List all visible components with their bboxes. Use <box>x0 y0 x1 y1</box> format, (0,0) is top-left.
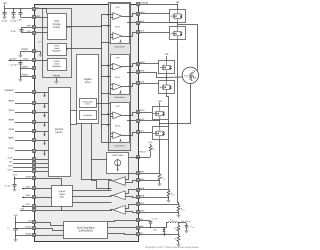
wire amp 2 minus input <box>126 197 137 198</box>
wire SHC <box>140 120 160 122</box>
wire SNC <box>139 212 179 214</box>
pin INHC <box>33 139 36 142</box>
wire GHC driver output <box>122 113 137 116</box>
svg-text:VDRAIN: VDRAIN <box>140 2 149 5</box>
svg-text:Copyright © 2017, Texas Instru: Copyright © 2017, Texas Instruments Inco… <box>145 246 199 249</box>
resistor RSENSE A <box>158 174 161 180</box>
pulldown on INLC <box>43 151 45 156</box>
svg-text:SDO: SDO <box>8 164 13 167</box>
pin SNC <box>137 211 140 214</box>
svg-text:AGND: AGND <box>21 65 28 68</box>
wire phase A source to sense <box>178 41 179 205</box>
wire SHB <box>140 73 167 78</box>
svg-text:VGLS: VGLS <box>115 25 121 28</box>
pin SOB <box>33 196 36 199</box>
wire SHA return into driver <box>127 22 136 24</box>
wire GLA <box>139 32 169 34</box>
wire INHC internal <box>36 140 49 142</box>
wire amp 1 minus input <box>126 181 137 183</box>
svg-text:INHB: INHB <box>8 118 14 121</box>
svg-text:Gate Driver: Gate Driver <box>115 145 126 148</box>
svg-text:VIN: VIN <box>28 220 32 223</box>
pin INLB <box>33 130 36 133</box>
IC body DRV8353R <box>35 5 139 242</box>
wire VM into power box <box>36 9 47 14</box>
wire BGND <box>16 235 33 237</box>
wire SNB <box>139 197 169 199</box>
block Buck Regulator LMR33630 <box>64 222 108 239</box>
svg-text:VM: VM <box>165 53 169 56</box>
svg-text:GLB: GLB <box>140 81 145 84</box>
ground sense B <box>168 196 170 199</box>
wire INHB internal <box>36 122 49 124</box>
ground in gate driver A <box>120 40 122 42</box>
wire SOB output <box>22 197 32 199</box>
svg-text:SOC: SOC <box>26 203 31 206</box>
supply stubs into gate driver B <box>102 65 111 67</box>
wire SDI internal <box>36 163 49 165</box>
pin CB <box>137 219 140 222</box>
svg-text:Core: Core <box>85 81 91 84</box>
wire VCP internal <box>36 17 48 19</box>
wire amp 1 output <box>109 181 113 191</box>
svg-text:3V3, 450 mA: 3V3, 450 mA <box>181 220 192 223</box>
svg-text:RSEN: RSEN <box>171 193 175 197</box>
pin VREF <box>33 177 36 180</box>
wire digital core to sense amps <box>92 124 112 189</box>
svg-text:GHC: GHC <box>140 109 145 112</box>
pin SW <box>137 227 140 230</box>
wire phase A to motor <box>178 25 198 71</box>
svg-text:SNB: SNB <box>140 194 145 197</box>
ground sense C <box>178 211 180 214</box>
wire INLC external <box>15 150 32 152</box>
svg-text:INLA: INLA <box>9 109 15 112</box>
bus Control Inputs to Digital Core <box>71 111 77 125</box>
wire INLC internal <box>36 150 49 152</box>
resistor RSENSE C <box>177 205 180 211</box>
wire SOB internal <box>36 197 52 199</box>
supply stubs into gate driver A <box>102 14 111 16</box>
svg-text:4.7 µF: 4.7 µF <box>11 20 17 23</box>
svg-text:RSEN: RSEN <box>162 177 166 181</box>
pin VIN <box>33 221 36 224</box>
MOSFET high-side phase A <box>170 10 186 23</box>
pin GLB <box>137 82 140 85</box>
pin nSHDN <box>33 227 36 230</box>
arrow below current source <box>117 167 119 169</box>
pin SHB <box>137 71 140 74</box>
ground in gate driver B <box>120 90 122 92</box>
svg-text:Pump: Pump <box>53 26 60 29</box>
pin SOA <box>33 187 36 190</box>
low-side driver amp phase B <box>113 83 122 90</box>
wire INHB external <box>15 122 32 124</box>
wire phase B switch node <box>166 74 168 81</box>
wire VCP VGLS supply rail <box>101 15 103 142</box>
svg-text:Gate Driver: Gate Driver <box>115 96 126 99</box>
wire SDI external <box>13 163 32 165</box>
capacitor CB bootstrap 0.1uF <box>150 220 152 223</box>
svg-text:VGLS: VGLS <box>115 125 121 128</box>
wire DVDD internal <box>36 60 48 62</box>
ground feedback divider <box>178 241 180 243</box>
gate-drive section column <box>109 3 131 151</box>
MOSFET low-side phase C <box>153 127 169 141</box>
wire CAL external <box>20 210 32 212</box>
wire SHC return into driver <box>127 120 136 122</box>
pin SHA <box>137 22 140 25</box>
current sense amp 2 <box>113 191 126 200</box>
svg-text:Gate Driver: Gate Driver <box>115 45 126 48</box>
gate driver block phase B <box>111 55 130 95</box>
wire CB <box>108 221 137 222</box>
wire smart gate drive to drivers <box>96 103 110 105</box>
svg-text:DVDD: DVDD <box>23 57 29 60</box>
gate driver block phase C <box>111 103 130 143</box>
svg-text:Linear: Linear <box>54 63 60 66</box>
pin CAL <box>33 209 36 212</box>
capacitor 47uF bulk <box>4 9 6 12</box>
block Smart Gate Drive <box>80 99 97 108</box>
svg-text:ENABLE: ENABLE <box>5 89 15 92</box>
svg-text:VCC: VCC <box>148 141 153 144</box>
pin DVDD <box>33 59 36 62</box>
svg-text:CAL: CAL <box>20 207 25 210</box>
wire INLA internal <box>36 112 49 114</box>
motor BLDC <box>182 67 198 83</box>
svg-text:COUT: COUT <box>191 225 195 229</box>
wire GHA <box>139 13 169 15</box>
block DVDD linear regulator <box>48 59 67 71</box>
svg-text:SNC: SNC <box>140 209 145 212</box>
svg-text:(LMR33630): (LMR33630) <box>78 229 93 232</box>
wire GHB driver output <box>122 64 137 67</box>
pin SDO <box>33 166 36 169</box>
wire SCLK internal <box>36 159 49 161</box>
pin SHC <box>137 120 140 123</box>
block VGLS linear regulator <box>48 44 67 56</box>
wire buck output 3V3 <box>178 222 186 224</box>
pulldown on INHC <box>43 140 45 145</box>
wire SDO internal <box>36 167 49 169</box>
wire amp 2 output <box>111 196 113 197</box>
high-side driver amp phase A <box>113 13 122 20</box>
svg-text:BGND: BGND <box>26 233 32 236</box>
wire SNA <box>139 180 160 182</box>
wire VIN to pin <box>16 222 33 224</box>
pin SPB <box>137 189 140 192</box>
wire SPA <box>139 173 160 175</box>
pin ENABLE <box>33 91 36 94</box>
wire nSCS external <box>13 171 32 173</box>
ground sense A <box>159 180 161 183</box>
svg-text:Inputs: Inputs <box>55 131 63 134</box>
block Protection <box>80 111 97 120</box>
svg-text:Fault Output: Fault Output <box>112 154 124 157</box>
current sense amp 1 <box>113 177 126 186</box>
capacitor CIN <box>13 229 17 231</box>
block Control Inputs <box>49 88 71 177</box>
wire GHB <box>139 63 159 65</box>
svg-text:SCLK: SCLK <box>7 157 13 160</box>
wire SOC internal <box>36 206 52 208</box>
svg-text:VM: VM <box>158 100 162 103</box>
pin CPH <box>33 26 36 29</box>
svg-text:VIN: VIN <box>14 214 18 217</box>
wire SOC output <box>22 206 32 208</box>
low-side driver amp phase C <box>113 132 122 139</box>
pulldown on INLB <box>43 132 45 137</box>
pin PGND <box>33 76 36 79</box>
pin SOC <box>33 205 36 208</box>
pin GLA <box>137 31 140 34</box>
ground below power box <box>56 78 58 81</box>
wire INHA internal <box>36 103 49 105</box>
svg-text:SOA: SOA <box>26 185 31 188</box>
pin nSCS <box>33 170 36 173</box>
pin INHA <box>33 102 36 105</box>
wire amp 2 plus input <box>126 190 137 194</box>
wire charge pump output <box>66 26 102 28</box>
pin GLC <box>137 131 140 134</box>
wire GLB driver output <box>122 84 137 87</box>
wire VIN rail <box>15 217 17 229</box>
high-side driver amp phase B <box>113 63 122 70</box>
pin VDRAIN <box>137 3 140 6</box>
pin DGND <box>33 50 36 53</box>
svg-text:SHB: SHB <box>140 70 145 73</box>
pin SPA <box>137 172 140 175</box>
svg-text:SDI: SDI <box>9 161 13 164</box>
svg-text:nSCS: nSCS <box>7 168 13 171</box>
diode buck rectifier <box>164 228 166 229</box>
svg-text:INHC: INHC <box>8 137 14 140</box>
pin SNA <box>137 179 140 182</box>
svg-text:INLB: INLB <box>9 128 15 131</box>
wires offset bias block to amps <box>72 190 111 192</box>
current sense amp 3 <box>113 206 126 215</box>
pin GHC <box>137 111 140 114</box>
capacitor 4.7uF <box>13 9 15 12</box>
capacitor 1uF VCP to VM <box>20 9 22 12</box>
wire VREF external <box>15 177 33 179</box>
wire VCP <box>21 17 32 19</box>
svg-text:CPH: CPH <box>27 25 32 28</box>
stub offset block to CAL wire <box>61 207 63 211</box>
pulldown on INHA <box>43 103 45 108</box>
wire INHC external <box>15 140 32 142</box>
pin AGND <box>33 67 36 70</box>
wire phase B source to sense <box>167 94 169 190</box>
wire VM rail <box>4 5 6 9</box>
wire SHB return into driver <box>127 72 136 74</box>
capacitor 47nF CPH-CPL flying <box>22 28 33 30</box>
wire amp 3 output <box>111 210 113 211</box>
svg-text:Output: Output <box>59 190 66 193</box>
svg-text:nSHDN: nSHDN <box>25 226 32 229</box>
pin GHB <box>137 63 140 66</box>
svg-text:nFAULT: nFAULT <box>139 151 147 154</box>
wire SHA <box>139 22 177 24</box>
wire INHA external <box>15 103 32 105</box>
wire BGND into buck <box>36 234 64 236</box>
wire ENABLE external <box>15 92 32 94</box>
wire GLB <box>139 83 159 85</box>
wire amp 1 plus input <box>126 174 137 180</box>
MOSFET low-side phase B <box>159 81 175 94</box>
power group box <box>43 9 72 78</box>
wire VIN into buck <box>36 223 64 226</box>
MOSFET low-side phase A <box>170 27 186 41</box>
MOSFET high-side phase C <box>153 107 169 121</box>
wire nSHDN into buck <box>36 229 64 231</box>
low-side driver amp phase A <box>113 33 122 40</box>
pin INHB <box>33 121 36 124</box>
svg-text:RSEN: RSEN <box>181 208 185 212</box>
MOSFET high-side phase B <box>159 61 175 75</box>
svg-text:DVDD: DVDD <box>54 60 60 63</box>
high-side driver amp phase C <box>113 112 122 119</box>
wire DGND external <box>21 52 33 55</box>
svg-text:VCP: VCP <box>116 6 121 9</box>
svg-text:Rect: Rect <box>153 228 157 231</box>
wire CPL internal <box>36 32 48 34</box>
svg-text:BLDC: BLDC <box>184 74 189 77</box>
resistor nFAULT pull-up <box>150 151 152 157</box>
svg-text:47 µF: 47 µF <box>2 20 8 23</box>
ground DGND internal <box>36 52 41 54</box>
wire CPH internal <box>36 27 48 29</box>
pin INLA <box>33 111 36 114</box>
wire VGLS regulator output <box>66 48 102 50</box>
svg-text:Offset: Offset <box>59 193 65 196</box>
wire SPB <box>139 189 169 191</box>
wire phase C to motor <box>160 84 191 124</box>
wire CAL internal <box>36 210 112 212</box>
block Fault Output <box>107 153 129 174</box>
wire VDRAIN to VM A <box>139 4 177 6</box>
svg-text:SOB: SOB <box>26 194 31 197</box>
resistor RFB1 <box>178 223 180 225</box>
wire phase B to motor <box>167 76 183 78</box>
pin SCLK <box>33 158 36 161</box>
wire phase A switch node <box>177 23 179 27</box>
gate driver block phase A <box>111 4 130 44</box>
inductor LOUT <box>168 222 178 223</box>
wire amp 3 minus input <box>126 212 137 213</box>
capacitor COUT <box>186 223 188 225</box>
wire SDO external <box>13 167 32 169</box>
block Digital Core <box>77 55 99 124</box>
pin BGND <box>33 234 36 237</box>
wire SW <box>108 227 136 229</box>
wire FB <box>108 233 125 235</box>
capacitor 0.1uF VREF <box>14 179 16 185</box>
capacitor 1uF DVDD <box>20 60 22 63</box>
resistor RFB2 <box>177 236 180 242</box>
svg-text:Regulator: Regulator <box>52 50 61 53</box>
svg-text:DGND: DGND <box>21 48 28 51</box>
svg-text:INHA: INHA <box>8 100 14 103</box>
ground in gate driver C <box>120 139 122 141</box>
svg-text:RPU: RPU <box>152 147 155 151</box>
wire GHC <box>139 112 152 114</box>
pin VM <box>33 8 36 11</box>
supply stubs into gate driver C <box>102 114 111 116</box>
wire GHA driver output <box>122 14 137 17</box>
wire SOA output <box>22 188 32 190</box>
svg-text:47 nF: 47 nF <box>11 30 17 33</box>
wire phase C switch node <box>159 120 161 127</box>
svg-text:1 µF 16 V: 1 µF 16 V <box>9 64 18 67</box>
wire INLA external <box>15 112 32 114</box>
pin nFAULT <box>137 156 140 159</box>
svg-text:VREF: VREF <box>26 176 32 179</box>
wire INLB internal <box>36 131 49 133</box>
wire SOA internal <box>36 188 52 190</box>
block Output Offset Bias <box>52 186 73 207</box>
pulldown on INHB <box>43 122 45 127</box>
pin INLC <box>33 150 36 153</box>
pin SDI <box>33 162 36 165</box>
resistor RSENSE B <box>167 190 170 196</box>
pin SNB <box>137 196 140 199</box>
wire DVDD external <box>9 60 32 62</box>
svg-text:VCP: VCP <box>116 57 121 60</box>
wire SPC <box>139 204 179 206</box>
wire VREF internal <box>36 179 62 186</box>
svg-text:0.1 µF: 0.1 µF <box>5 185 11 188</box>
svg-text:VGLS: VGLS <box>115 76 121 79</box>
svg-text:INLC: INLC <box>9 147 15 150</box>
pin CPL <box>33 32 36 35</box>
svg-text:LOUT: LOUT <box>170 218 174 222</box>
svg-text:1 µF: 1 µF <box>17 18 22 21</box>
svg-text:VGLS: VGLS <box>54 45 60 48</box>
svg-text:VCP: VCP <box>116 105 121 108</box>
svg-text:CIN: CIN <box>7 227 10 231</box>
pin SPC <box>137 203 140 206</box>
block VCP charge pump <box>48 14 67 40</box>
svg-text:Linear: Linear <box>54 47 60 50</box>
svg-text:Power: Power <box>53 74 60 77</box>
wire GLC driver output <box>122 133 137 136</box>
wire PGND external <box>21 76 33 78</box>
wire amp 3 plus input <box>126 205 137 209</box>
wire nSHDN <box>16 228 33 230</box>
wire AGND external <box>21 68 32 70</box>
svg-text:DVDD: DVDD <box>10 57 17 60</box>
wire nFAULT <box>129 157 150 159</box>
pin VCP <box>33 16 36 19</box>
pulldown on ENABLE <box>43 92 45 97</box>
pin FB <box>137 233 140 236</box>
wire nSCS internal <box>36 171 49 173</box>
wire digital core to fault block <box>82 124 112 180</box>
wire GLC <box>139 132 152 134</box>
svg-text:VCC: VCC <box>13 173 18 176</box>
svg-text:Protection: Protection <box>83 114 92 117</box>
current source symbol in fault block <box>115 159 121 167</box>
pulldown on INLA <box>43 113 45 118</box>
wire GLA driver output <box>122 33 137 37</box>
svg-text:0.1 µF: 0.1 µF <box>152 218 158 221</box>
wire SCLK external <box>13 159 32 161</box>
pin GHA <box>137 13 140 16</box>
svg-text:Regulator: Regulator <box>52 65 61 68</box>
wire ENABLE internal <box>36 92 49 94</box>
